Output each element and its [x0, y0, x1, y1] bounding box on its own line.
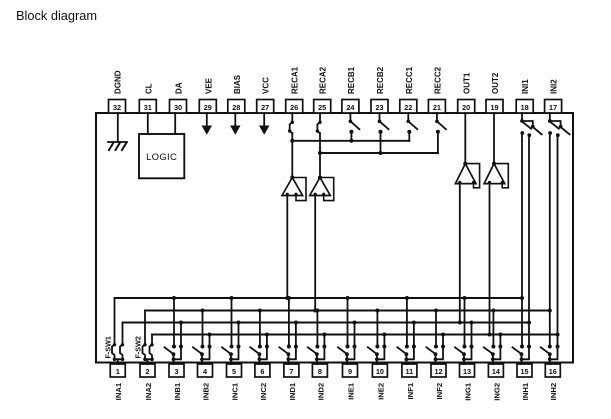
svg-text:8: 8 [318, 367, 322, 376]
wire S23 contact to REC2 bus [379, 132, 383, 155]
svg-text:F-SW1: F-SW1 [104, 336, 113, 358]
svg-text:RECC1: RECC1 [405, 66, 414, 94]
wire pin3 (INB1) left contact to bus IN1 [172, 296, 176, 347]
pin 25 (RECA2) terminal box and label [314, 66, 331, 113]
op-amp A2 (REC amp 2) [310, 176, 334, 201]
switch S21 (RECC2), open [435, 113, 446, 134]
wire pin9 (INE1) right contact to bus IN3 [353, 321, 357, 347]
switch S17 (INI2), selector [548, 113, 570, 137]
pin 10 (INE2) terminal box and label [372, 364, 387, 400]
pin 31 (CL) terminal box and label [139, 83, 156, 113]
pin 2 (INA2) terminal box and label [140, 364, 155, 400]
wire S18 (INI1) contact a to bus IN1 [520, 133, 524, 347]
wire S22 contact to REC1 bus [408, 132, 410, 141]
node bus IN1 (record/odd inputs) [115, 297, 523, 299]
wire switch S16 to pin 16 [549, 359, 551, 364]
svg-text:OUT1: OUT1 [463, 72, 472, 94]
pin 26 (RECA1) terminal box and label [286, 66, 303, 113]
wire pin3 (INB1) right contact to bus IN3 [179, 321, 183, 347]
wire pin30 (DA) to LOGIC [174, 113, 176, 134]
VCC supply arrow [259, 113, 269, 135]
svg-text:BIAS: BIAS [233, 74, 242, 94]
wire pin13 (ING1) left contact to bus IN1 [463, 296, 467, 347]
wire pin8 (IND2) left contact to bus IN2 [315, 309, 319, 347]
wire RECA2 switch to amp A2 output node [318, 133, 322, 177]
wire switch S15 to pin 15 [521, 359, 523, 364]
svg-text:21: 21 [433, 103, 441, 112]
pin 1 (INA1) terminal box and label [110, 364, 125, 400]
wire switch S5 to pin 5 [230, 359, 232, 364]
wire amp A3 input to bus IN3 [458, 184, 462, 325]
switch S11 (INF1), open [397, 345, 416, 362]
switch S18 (INI1), selector [520, 113, 542, 137]
label F-SW2 [134, 336, 143, 358]
ground (DGND) symbol [108, 142, 127, 150]
switch F-SW1 (pin 1, closed pair) [112, 298, 124, 361]
wire pin4 (INB2) right contact to bus IN4 [208, 333, 212, 347]
wire pin5 (INC1) left contact to bus IN1 [230, 296, 234, 347]
svg-text:VEE: VEE [204, 77, 213, 94]
node/bus REC2 (RECA2-RECB2-RECC2 tie line) [320, 152, 438, 154]
svg-text:IND2: IND2 [316, 383, 325, 401]
pin 9 (INE1) terminal box and label [343, 364, 358, 400]
switch S15 (INH1), open [513, 345, 532, 362]
wire pin5 (INC1) right contact to bus IN3 [237, 321, 241, 347]
pin 24 (RECB1) terminal box and label [342, 66, 359, 113]
wire pin6 (INC2) left contact to bus IN2 [258, 309, 262, 347]
svg-text:20: 20 [462, 103, 470, 112]
wire switch S7 to pin 7 [287, 359, 289, 364]
wire pin32 to ground [117, 113, 119, 142]
node bus IN3 (monitor/odd inputs) [123, 322, 530, 324]
op-amp A4 (OUT2 amp) [484, 162, 508, 188]
pin 18 (INI1) terminal box and label [516, 79, 533, 113]
switch S12 (INF2), open [427, 345, 446, 362]
svg-text:INC2: INC2 [259, 383, 268, 401]
pin 15 (INH1) terminal box and label [517, 364, 532, 400]
switch S8 (IND2), open [308, 345, 327, 362]
VEE supply arrow [202, 113, 212, 135]
pin 6 (INC2) terminal box and label [255, 364, 270, 400]
svg-text:28: 28 [232, 103, 240, 112]
wire switch S3 to pin 3 [173, 359, 175, 364]
svg-text:INI2: INI2 [550, 79, 559, 94]
wire pin11 (INF1) left contact to bus IN1 [405, 296, 409, 347]
pin 16 (INH2) terminal box and label [545, 364, 560, 400]
wire pin11 (INF1) right contact to bus IN3 [412, 321, 416, 347]
wire pin4 (INB2) left contact to bus IN2 [201, 309, 205, 347]
node bus IN2 (record/even inputs) [145, 310, 550, 312]
switch S24 (RECB1), open [349, 113, 360, 134]
wire switch S6 to pin 6 [258, 359, 260, 364]
svg-text:6: 6 [260, 367, 264, 376]
wire S17 (INI2) contact b to bus IN4 [556, 135, 560, 346]
svg-text:INI1: INI1 [521, 79, 530, 94]
node bus IN4 (monitor/even inputs) [152, 334, 558, 336]
pin 19 (OUT2) terminal box and label [486, 72, 503, 113]
svg-text:INA1: INA1 [114, 382, 123, 400]
svg-text:5: 5 [232, 367, 236, 376]
svg-text:24: 24 [346, 103, 355, 112]
svg-text:INB2: INB2 [201, 383, 210, 401]
wire S21 contact to REC2 bus [437, 132, 439, 153]
svg-text:18: 18 [521, 103, 529, 112]
switch S9 (INE1), open [338, 345, 357, 362]
switch S10 (INE2), open [368, 345, 387, 362]
svg-text:INE1: INE1 [346, 382, 355, 400]
svg-text:13: 13 [463, 367, 471, 376]
svg-text:3: 3 [174, 367, 178, 376]
svg-text:25: 25 [318, 103, 326, 112]
svg-text:10: 10 [376, 367, 384, 376]
switch S22 (RECC1), open [407, 113, 418, 134]
wire switch S9 to pin 9 [346, 359, 348, 364]
pin 11 (INF1) terminal box and label [402, 364, 417, 399]
pin 23 (RECB2) terminal box and label [371, 66, 388, 113]
wire amp A1 input to bus IN1 [285, 196, 289, 301]
svg-text:RECB2: RECB2 [376, 66, 385, 94]
svg-text:16: 16 [549, 367, 557, 376]
pin 7 (IND1) terminal box and label [284, 364, 299, 400]
svg-text:26: 26 [290, 103, 298, 112]
svg-text:1: 1 [116, 367, 120, 376]
LOGIC block [139, 134, 184, 178]
pin 3 (INB1) terminal box and label [169, 364, 184, 400]
label F-SW1 [104, 336, 113, 358]
pin 32 (DGND) terminal box and label [109, 70, 126, 113]
svg-text:RECB1: RECB1 [347, 66, 356, 94]
pin 14 (ING2) terminal box and label [488, 364, 503, 401]
wire pin8 (IND2) right contact to bus IN4 [322, 333, 326, 347]
switch S23 (RECB2), open [378, 113, 389, 134]
wire pin9 (INE1) left contact to bus IN1 [346, 296, 350, 347]
switch S16 (INH2), open [541, 345, 560, 362]
svg-text:31: 31 [144, 103, 152, 112]
op-amp A3 (OUT1 amp) [455, 162, 479, 188]
svg-text:11: 11 [406, 367, 414, 376]
svg-text:DGND: DGND [114, 70, 123, 94]
svg-text:32: 32 [113, 103, 121, 112]
svg-text:INF2: INF2 [435, 383, 444, 400]
wire pin20 (OUT1) to amp A3 output [464, 113, 466, 164]
wire switch S10 to pin 10 [376, 359, 378, 364]
wire amp A2 input to bus IN2 [313, 196, 317, 313]
pin 27 (VCC) terminal box and label [257, 77, 274, 113]
wire F-SW2 to pin 2 [147, 359, 149, 364]
switch S5 (INC1), open [222, 345, 241, 362]
wire F-SW1 to pin 1 [117, 359, 119, 364]
node/bus REC1 (RECA1-RECB1-RECC1 tie line) [292, 140, 409, 142]
title: Block diagram [16, 8, 97, 23]
pin 12 (INF2) terminal box and label [431, 364, 446, 399]
svg-text:INA2: INA2 [144, 383, 153, 401]
BIAS supply arrow [230, 113, 240, 135]
wire S17 (INI2) contact a to bus IN2 [548, 133, 552, 347]
svg-text:30: 30 [174, 103, 182, 112]
wire switch S8 to pin 8 [316, 359, 318, 364]
wire pin13 (ING1) right contact to bus IN3 [470, 321, 474, 347]
svg-text:IND1: IND1 [288, 382, 297, 400]
svg-text:17: 17 [549, 103, 557, 112]
switch S7 (IND1), open [279, 345, 298, 362]
pin 8 (IND2) terminal box and label [312, 364, 327, 400]
wire pin10 (INE2) right contact to bus IN4 [382, 333, 386, 347]
svg-text:12: 12 [434, 367, 442, 376]
pin 20 (OUT1) terminal box and label [458, 72, 475, 113]
svg-text:INC1: INC1 [230, 382, 239, 400]
pin 5 (INC1) terminal box and label [227, 364, 242, 400]
pin 4 (INB2) terminal box and label [198, 364, 213, 400]
svg-text:F-SW2: F-SW2 [134, 336, 143, 358]
svg-text:7: 7 [289, 367, 293, 376]
svg-text:INF1: INF1 [406, 382, 415, 399]
wire pin6 (INC2) right contact to bus IN4 [265, 333, 269, 347]
svg-text:ING2: ING2 [492, 383, 501, 401]
wire pin14 (ING2) right contact to bus IN4 [498, 333, 502, 347]
svg-text:22: 22 [404, 103, 412, 112]
op-amp A1 (REC amp 1) [282, 176, 306, 201]
wire pin31 (CL) to LOGIC [147, 113, 149, 134]
svg-text:15: 15 [520, 367, 528, 376]
wire pin19 (OUT2) to amp A4 output [493, 113, 495, 164]
svg-text:VCC: VCC [262, 77, 271, 94]
wire S18 (INI1) contact b to bus IN3 [527, 135, 531, 346]
wire pin7 (IND1) left contact to bus IN1 [287, 296, 291, 347]
IC body outline [96, 113, 573, 363]
wire switch S12 to pin 12 [435, 359, 437, 364]
svg-text:Block diagram: Block diagram [16, 8, 97, 23]
svg-text:OUT2: OUT2 [491, 72, 500, 94]
svg-text:INH1: INH1 [521, 382, 530, 400]
svg-text:23: 23 [375, 103, 383, 112]
svg-text:27: 27 [261, 103, 269, 112]
svg-text:19: 19 [490, 103, 498, 112]
svg-text:RECA1: RECA1 [291, 66, 300, 94]
svg-text:INE2: INE2 [376, 383, 385, 400]
pin 28 (BIAS) terminal box and label [228, 74, 245, 113]
wire switch S4 to pin 4 [201, 359, 203, 364]
pin 30 (DA) terminal box and label [170, 82, 187, 113]
pin 21 (RECC2) terminal box and label [428, 66, 445, 113]
wire switch S13 to pin 13 [463, 359, 465, 364]
wire amp A4 input to bus IN4 [488, 184, 492, 337]
svg-text:INH2: INH2 [549, 383, 558, 401]
wire pin7 (IND1) right contact to bus IN3 [294, 321, 298, 347]
svg-text:INB1: INB1 [173, 382, 182, 400]
svg-text:CL: CL [144, 83, 153, 94]
wire RECA1 switch to amp A1 output node [290, 133, 294, 177]
wire pin14 (ING2) left contact to bus IN2 [491, 309, 495, 347]
pin 17 (INI2) terminal box and label [545, 79, 562, 113]
wire S24 contact to REC1 bus [349, 132, 353, 143]
switch S3 (INB1), open [165, 345, 184, 362]
wire pin10 (INE2) left contact to bus IN2 [375, 309, 379, 347]
switch S6 (INC2), open [250, 345, 269, 362]
switch S4 (INB2), open [193, 345, 212, 362]
wire pin12 (INF2) left contact to bus IN2 [434, 309, 438, 347]
switch S13 (ING1), open [455, 345, 474, 362]
svg-text:14: 14 [492, 367, 501, 376]
pin 22 (RECC1) terminal box and label [400, 66, 417, 113]
svg-text:ING1: ING1 [463, 382, 472, 401]
svg-text:RECC2: RECC2 [433, 66, 442, 94]
wire switch S11 to pin 11 [405, 359, 407, 364]
wire switch S14 to pin 14 [492, 359, 494, 364]
switch S25 (RECA2, closed) [316, 113, 322, 133]
switch S14 (ING2), open [484, 345, 503, 362]
wire pin12 (INF2) right contact to bus IN4 [441, 333, 445, 347]
pin 13 (ING1) terminal box and label [460, 364, 475, 401]
svg-text:LOGIC: LOGIC [146, 152, 177, 163]
switch F-SW2 (pin 2, closed pair) [143, 311, 154, 362]
svg-text:9: 9 [348, 367, 352, 376]
svg-text:DA: DA [175, 82, 184, 94]
svg-text:RECA2: RECA2 [319, 66, 328, 94]
pin 29 (VEE) terminal box and label [199, 77, 216, 113]
svg-text:2: 2 [145, 367, 149, 376]
switch S26 (RECA1, closed) [288, 113, 294, 133]
svg-text:29: 29 [204, 103, 212, 112]
